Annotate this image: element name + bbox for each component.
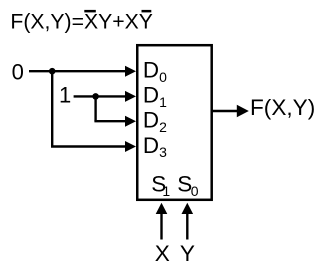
multiplexer U1 (137, 45, 211, 200)
junction node A (49, 68, 56, 75)
svg-text:0: 0 (12, 59, 24, 84)
equation label F(X,Y)=X'Y+XY' (10, 10, 152, 34)
junction node B (92, 93, 99, 100)
svg-text:F(X,Y)=XY+XY: F(X,Y)=XY+XY (10, 10, 152, 33)
svg-text:1: 1 (59, 83, 71, 108)
wire output to F (213, 105, 249, 117)
wire Y to S0 (182, 203, 194, 240)
wire node A to D3 (51, 71, 136, 152)
wire 1 to D1 (74, 91, 136, 102)
wire X to S1 (156, 203, 168, 240)
svg-text:Y: Y (180, 241, 195, 265)
wire 0 to D0 (29, 66, 136, 77)
wire node B to D2 (94, 96, 136, 126)
svg-text:X: X (155, 241, 170, 265)
svg-text:F(X,Y): F(X,Y) (250, 95, 315, 120)
